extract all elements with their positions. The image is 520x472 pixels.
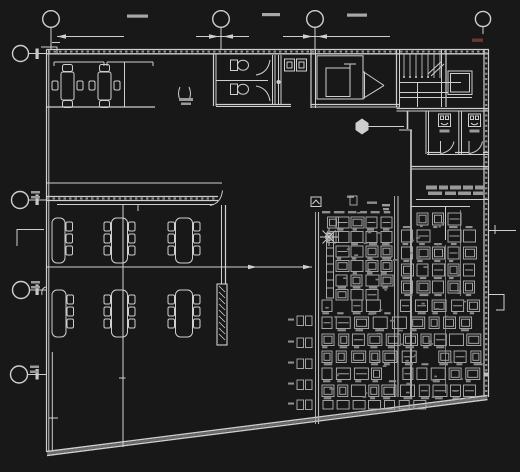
corridor wall lower: [410, 130, 412, 399]
desk row1 group2: [104, 218, 135, 263]
elevator door wedge: [363, 72, 384, 99]
wc bottom wall: [427, 153, 489, 155]
partition lower line: [57, 204, 214, 206]
cluster rows will be appended here: [288, 196, 483, 410]
washbasin 1: [285, 59, 295, 71]
grid bubble T3: [307, 11, 324, 49]
section C row 1: [322, 300, 332, 312]
wall corner bracket: [17, 230, 44, 247]
desk D2 (room A): [89, 65, 120, 108]
cluster bottom partial row: [323, 401, 333, 410]
dimension line span3 arrows at T3: [283, 34, 390, 39]
wc room divider: [459, 111, 462, 154]
elevator shaft: [317, 56, 363, 99]
partition door arc: [210, 191, 223, 206]
toilet WC1: [231, 60, 249, 71]
desk row2 group3: [168, 290, 200, 337]
room A bottom wall: [47, 106, 156, 108]
filled diamond column marker: [356, 119, 405, 135]
toilet WC2: [231, 84, 249, 95]
washbasin 2: [297, 59, 307, 71]
stair landing lines: [400, 83, 473, 108]
dimension text 1: [127, 15, 148, 18]
leader line right: [489, 225, 516, 234]
section C row 3: [322, 334, 334, 346]
grid bubble L3: [13, 281, 47, 299]
tick x124: [137, 205, 139, 212]
elevator shaft 2: [448, 71, 472, 95]
north box: [311, 197, 321, 207]
section A row 1: [336, 217, 349, 228]
tread dots: [403, 76, 429, 78]
section B row 1: [403, 226, 410, 228]
cluster scattered ticks: [414, 355, 417, 357]
right wall: [484, 50, 489, 398]
section B row 4: [402, 264, 414, 276]
textured strip: [327, 233, 334, 298]
stair treads: [404, 54, 440, 78]
room A counter line: [54, 62, 153, 66]
section C row 2: [322, 317, 332, 329]
section A row 3: [336, 246, 349, 257]
corridor wall jog: [399, 129, 412, 131]
dimension text 3: [347, 14, 367, 17]
label row right: [382, 186, 484, 211]
section C row 4: [322, 351, 332, 363]
bottom diagonal wall: [47, 396, 488, 456]
right block top wall: [397, 109, 489, 112]
dimension line span1: [57, 34, 124, 38]
elevator door line: [364, 72, 366, 99]
section C row 6: [322, 385, 334, 397]
column line x122: [122, 205, 124, 448]
partition band top line: [47, 182, 223, 184]
washroom wall: [279, 55, 282, 105]
grid bubble L2: [12, 191, 47, 209]
stall door arcs: [256, 60, 270, 101]
top wall band: [47, 50, 490, 54]
cluster divider x445: [445, 245, 447, 393]
toilet block left wall: [214, 54, 217, 106]
cluster top dash: [347, 196, 354, 198]
cluster wall x396: [394, 196, 396, 397]
room A divider: [124, 62, 126, 107]
left wall: [47, 50, 49, 453]
wall x223: [222, 205, 226, 284]
section A row 4: [336, 261, 349, 272]
cluster left pairs column: [288, 319, 294, 321]
section A row 2: [336, 232, 349, 243]
elevator block left wall: [311, 50, 316, 109]
mid wall y168: [411, 167, 489, 170]
section B row 5: [402, 281, 413, 293]
grid bubble T2: [213, 11, 230, 49]
mid wall y200: [411, 200, 489, 241]
wc door D: [469, 141, 483, 154]
stair right wall: [442, 50, 447, 108]
stair left wall: [397, 50, 400, 108]
section A row 5: [336, 275, 347, 286]
section B row 3: [402, 247, 413, 259]
toilet D: [469, 114, 481, 133]
grid bubble L1: [13, 46, 58, 62]
section B row 2: [402, 230, 413, 242]
elevator block bottom wall: [311, 105, 400, 108]
plant symbol: [320, 228, 338, 246]
left wall lower second line: [51, 352, 53, 452]
section C row 5: [322, 368, 332, 380]
revision cloud text (red): [472, 39, 483, 42]
dimension text 2: [262, 13, 280, 16]
grid bubble L4: [11, 366, 47, 384]
desk D1 (room A): [52, 65, 83, 108]
grid bubble T4: [475, 11, 490, 34]
dimension line mid: [47, 265, 313, 269]
outside ledge bracket: [489, 295, 504, 311]
toilet C: [439, 114, 451, 133]
desk row1 group1: [52, 218, 73, 263]
partition band: [47, 197, 219, 201]
desk row2 group1: [52, 290, 74, 337]
hatched wall bar: [217, 284, 227, 345]
door knob dot: [277, 80, 281, 84]
toilet stall divider: [216, 80, 268, 82]
wc door C: [441, 141, 455, 154]
stair break mark: [428, 62, 444, 76]
dimension line span2 arrows at T2: [196, 34, 249, 39]
toilet block bottom wall: [216, 105, 291, 107]
dense equipment cluster: [316, 196, 399, 424]
stall front wall: [273, 55, 276, 105]
cluster divider x460: [460, 210, 462, 296]
desk row1 group3: [168, 218, 200, 263]
corridor wall upper: [407, 111, 409, 129]
left wall tick: [49, 417, 58, 419]
cluster extra marks: [367, 202, 377, 204]
grid bubble T1: [43, 11, 60, 49]
wc room left wall: [426, 111, 429, 154]
door symbol with label: [179, 87, 194, 105]
cluster section A low row: [336, 290, 348, 301]
cluster text row A: [322, 211, 330, 213]
desk row2 group2: [104, 290, 135, 337]
elevator cab: [326, 64, 356, 97]
cluster wall x317: [315, 212, 317, 424]
wall column bump: [484, 373, 489, 377]
